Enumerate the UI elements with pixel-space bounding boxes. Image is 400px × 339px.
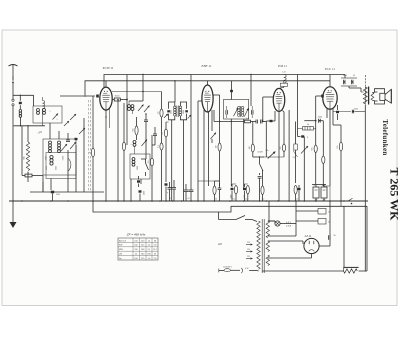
svg-text:EM 11: EM 11 xyxy=(277,64,287,68)
resistor EM4 xyxy=(280,144,286,157)
output transformer secondary xyxy=(371,93,374,101)
wire ECL pins xyxy=(327,109,333,187)
trimmer 2 xyxy=(70,142,76,149)
tuning coil L1 xyxy=(46,141,52,160)
power transformer heater winding 1 xyxy=(266,241,269,252)
resistor af xyxy=(245,118,251,123)
pilot lamp xyxy=(268,221,292,227)
svg-text:1,4: 1,4 xyxy=(148,258,151,260)
resistor grid ECL xyxy=(337,125,343,201)
oscillator coil pair A xyxy=(128,101,134,114)
capacitor T2a xyxy=(226,106,228,118)
svg-text:ECH 11: ECH 11 xyxy=(102,66,114,70)
capacitor blob2 xyxy=(139,190,146,201)
label aW xyxy=(218,242,222,246)
svg-text:Bereich: Bereich xyxy=(119,239,127,242)
wire OT secondary leads xyxy=(372,93,374,101)
resistor k2 xyxy=(148,135,154,201)
IF T2 trimmer arrows xyxy=(234,108,249,117)
trimmer osc B xyxy=(142,140,148,147)
wire xyxy=(345,75,364,93)
loudspeaker frame xyxy=(375,89,385,104)
svg-text:220: 220 xyxy=(247,242,250,244)
wire EBF9 pin1 xyxy=(203,110,205,201)
tuning coil box xyxy=(43,139,76,175)
label ECL 11 xyxy=(324,67,335,71)
trimmer osc A xyxy=(138,105,150,113)
tube EM4 xyxy=(273,88,285,111)
wire xyxy=(263,156,284,158)
volume pot xyxy=(253,152,276,159)
antenna terminals xyxy=(12,99,14,106)
capacitor osc xyxy=(144,113,148,127)
resistor 1M b xyxy=(249,122,255,158)
wire T2 feed xyxy=(230,81,233,100)
wire xyxy=(21,126,23,176)
rectifier AZ1 xyxy=(304,234,319,254)
svg-text:5000: 5000 xyxy=(183,110,185,114)
svg-text:515: 515 xyxy=(141,258,144,260)
svg-text:168: 168 xyxy=(147,254,150,256)
svg-text:150: 150 xyxy=(134,240,137,242)
tuning coil L2 xyxy=(58,141,65,160)
label 0,1 xyxy=(293,157,297,159)
svg-text:1M: 1M xyxy=(249,146,251,149)
svg-text:AZ 11: AZ 11 xyxy=(304,234,312,238)
label EM 11 xyxy=(277,64,287,68)
bottom RC pair 1 xyxy=(198,181,221,201)
svg-text:KW: KW xyxy=(119,245,122,247)
wire B+ down xyxy=(297,75,299,137)
plug arc xyxy=(241,268,257,273)
svg-text:Telefunken: Telefunken xyxy=(381,119,389,155)
svg-text:125: 125 xyxy=(247,256,250,258)
capacitor blob xyxy=(137,176,140,187)
capacitor pair top xyxy=(341,75,357,86)
mains switch xyxy=(219,212,258,222)
tube ECL11 xyxy=(323,75,337,110)
svg-text:2000: 2000 xyxy=(137,166,139,170)
power transformer heater winding 2 xyxy=(266,255,269,266)
wire ECH11 pins xyxy=(105,109,109,202)
capacitor electrolytic 2 xyxy=(172,180,176,201)
resistor h xyxy=(89,148,95,157)
svg-text:EBF 11: EBF 11 xyxy=(200,64,212,68)
resistor 01 xyxy=(158,143,164,201)
field coil xyxy=(344,251,368,273)
capacitor xyxy=(184,184,189,201)
wire xyxy=(129,74,144,101)
wire AZ1 cathode xyxy=(268,254,312,258)
resistor xyxy=(162,122,169,201)
label Netz xyxy=(223,267,232,269)
grid resistor 3000 xyxy=(112,96,127,101)
wire det out xyxy=(214,110,244,122)
wire xyxy=(190,75,192,187)
capacitor coupling xyxy=(298,135,309,201)
antenna coupling coil xyxy=(19,110,22,126)
svg-text:5000: 5000 xyxy=(171,110,173,114)
output transformer core xyxy=(368,87,370,105)
wire plate xyxy=(117,99,119,201)
bottom R single xyxy=(261,170,264,201)
tap arrows xyxy=(246,242,253,259)
choke EM4 xyxy=(280,72,287,89)
bottom pair em xyxy=(294,185,301,201)
label ZF 468 kHz xyxy=(126,233,146,237)
svg-text:4 W: 4 W xyxy=(245,268,249,270)
svg-text:520: 520 xyxy=(141,240,144,242)
svg-text:25: 25 xyxy=(169,198,171,200)
wire taps xyxy=(257,270,259,273)
svg-text:5000: 5000 xyxy=(144,191,146,195)
coil curl xyxy=(43,97,45,126)
wire can caps xyxy=(296,209,330,225)
wire xyxy=(67,150,69,192)
svg-text:1k: 1k xyxy=(27,172,29,174)
svg-text:0000: 0000 xyxy=(56,166,58,170)
pot 50k xyxy=(265,150,275,159)
IF transformer T2 windings xyxy=(238,106,244,117)
svg-text:160: 160 xyxy=(134,258,137,260)
labels bottom xyxy=(169,195,264,201)
wire lamp xyxy=(269,201,296,236)
tube ECH11 xyxy=(96,81,112,110)
chassis rail xyxy=(9,200,368,202)
wire screen xyxy=(126,75,128,146)
bottom RC pair 3 xyxy=(243,184,249,201)
loudspeaker cone xyxy=(385,89,391,103)
trimmer 1 xyxy=(61,144,67,151)
wire diode xyxy=(213,95,220,143)
tube EBF9 xyxy=(202,81,213,112)
switch arrow b xyxy=(79,128,85,134)
wire heater xyxy=(268,235,296,237)
svg-text:1,25: 1,25 xyxy=(282,72,286,74)
svg-text:49: 49 xyxy=(154,254,156,256)
wire right vertical xyxy=(344,206,367,268)
wire EBF9 pin2 xyxy=(208,112,210,186)
labels caps xyxy=(315,200,326,202)
svg-text:4µF: 4µF xyxy=(315,200,318,202)
svg-text:3000: 3000 xyxy=(115,96,121,98)
svg-text:1M: 1M xyxy=(216,145,218,148)
wire into box xyxy=(33,95,35,106)
svg-text:aW: aW xyxy=(218,242,222,246)
resistor 1k xyxy=(22,172,43,192)
wire antenna down xyxy=(12,95,14,201)
wire avc xyxy=(198,101,202,201)
capacitor ant series xyxy=(13,95,34,109)
svg-text:50k: 50k xyxy=(133,128,135,131)
svg-text:ECL 11: ECL 11 xyxy=(324,67,335,71)
IF T1 left trimmer xyxy=(164,102,175,120)
wire xyxy=(312,184,326,186)
output transformer primary xyxy=(363,87,367,105)
switch em xyxy=(293,122,298,184)
rail junction dots xyxy=(12,200,345,202)
svg-text:50: 50 xyxy=(215,199,217,201)
wire AZ1 xyxy=(268,238,330,247)
padder coil stack xyxy=(132,158,139,171)
svg-text:150: 150 xyxy=(247,249,250,251)
wire xyxy=(83,118,85,192)
svg-text:50k: 50k xyxy=(265,150,268,152)
wire bottom row xyxy=(30,182,104,192)
wire EM4 pin4 xyxy=(288,110,290,201)
coil antenna box xyxy=(33,106,62,123)
wire xyxy=(131,179,141,201)
wire OT top lead xyxy=(364,75,366,87)
svg-text:MW: MW xyxy=(119,249,123,251)
IF T1 right trimmer xyxy=(180,102,191,120)
svg-text:50: 50 xyxy=(353,75,355,77)
capacitor osc2 xyxy=(153,127,157,141)
grid cap blob xyxy=(315,95,324,146)
bus wire lower xyxy=(93,201,344,212)
switch arrow c xyxy=(64,121,69,126)
wire grid feed xyxy=(60,95,95,96)
label 300 xyxy=(37,130,43,135)
IF transformer T2 box xyxy=(224,100,249,120)
svg-text:5,8: 5,8 xyxy=(154,245,157,247)
label EBF 11 xyxy=(200,64,212,68)
svg-text:5000: 5000 xyxy=(244,195,246,199)
capacitor 50uF xyxy=(329,201,337,240)
power transformer core xyxy=(262,219,264,273)
capacitor electrolytic xyxy=(167,182,172,201)
svg-text:110/220 V: 110/220 V xyxy=(223,267,232,269)
svg-text:0,5M: 0,5M xyxy=(258,152,263,154)
osc switch xyxy=(146,159,149,176)
svg-text:0,1: 0,1 xyxy=(233,199,236,201)
power transformer HV winding xyxy=(266,221,269,238)
resistor k1 xyxy=(122,103,125,201)
wire xyxy=(333,124,341,126)
svg-text:2000: 2000 xyxy=(46,166,48,170)
svg-text:0,2: 0,2 xyxy=(262,199,265,201)
switch arrow a xyxy=(70,114,76,120)
svg-text:6,1: 6,1 xyxy=(148,249,151,251)
svg-text:0,3 A: 0,3 A xyxy=(286,224,292,227)
resistor det 1M xyxy=(216,143,222,186)
wire EM4 pin3 xyxy=(283,111,285,145)
power transformer primary xyxy=(257,221,260,269)
svg-text:15: 15 xyxy=(148,240,150,242)
wire stub xyxy=(152,141,155,145)
svg-text:0,5: 0,5 xyxy=(187,198,190,200)
svg-text:148: 148 xyxy=(141,249,144,251)
svg-text:5000: 5000 xyxy=(354,109,358,111)
electrolytic can 2 xyxy=(321,184,327,201)
wire xyxy=(75,145,77,192)
svg-text:50k: 50k xyxy=(312,147,314,150)
svg-text:20: 20 xyxy=(135,254,137,256)
capacitor anode xyxy=(333,109,365,114)
switch af xyxy=(259,156,263,175)
wire kath bottom xyxy=(323,186,330,201)
wire T1 left down xyxy=(171,120,173,201)
wire af line xyxy=(304,120,315,122)
title T 265 WK xyxy=(388,168,400,222)
capacitor tone ecl xyxy=(336,105,339,120)
small cap mid xyxy=(66,133,78,142)
svg-text:50: 50 xyxy=(307,124,309,126)
svg-text:5000: 5000 xyxy=(231,195,233,199)
svg-text:160: 160 xyxy=(134,245,137,247)
resistor osc grid xyxy=(133,117,139,140)
svg-text:310: 310 xyxy=(134,249,137,251)
svg-text:h: h xyxy=(89,152,90,154)
svg-text:515: 515 xyxy=(141,245,144,247)
bottom RC pair 2 xyxy=(231,184,238,201)
svg-text:1,4: 1,4 xyxy=(148,245,151,247)
wire xyxy=(50,123,59,139)
wire OT bottom xyxy=(364,105,366,272)
wire xyxy=(141,127,146,159)
svg-text:ZF = 468 kHz: ZF = 468 kHz xyxy=(126,233,146,237)
svg-text:5,8: 5,8 xyxy=(154,258,157,260)
dashed pair xyxy=(89,100,91,192)
wire EM4 grid feed xyxy=(262,97,273,122)
svg-text:LW: LW xyxy=(119,254,122,256)
svg-text:580: 580 xyxy=(141,254,144,256)
capacitor af xyxy=(258,177,262,202)
osc section box xyxy=(130,154,150,179)
wire T1 feed xyxy=(174,80,175,102)
antenna bus wire xyxy=(14,125,45,126)
svg-text:T 265 WK: T 265 WK xyxy=(388,168,400,222)
svg-text:5000: 5000 xyxy=(318,117,322,119)
wire xyxy=(250,74,251,106)
svg-text:0,1: 0,1 xyxy=(296,199,299,201)
wire xyxy=(231,119,243,188)
loudspeaker magnet xyxy=(380,93,385,100)
resistor 50 hatched xyxy=(298,124,316,130)
switch arrow af2 xyxy=(301,146,308,154)
svg-text:58: 58 xyxy=(154,240,156,242)
title Telefunken xyxy=(381,119,389,155)
IF transformer T1 windings xyxy=(171,106,185,118)
resistor kathode xyxy=(322,121,325,186)
wire EM4 pin2 xyxy=(278,111,280,201)
inner band box xyxy=(46,153,76,179)
top bus wire 2 xyxy=(85,81,330,95)
wire T1 right down xyxy=(183,120,185,201)
capacitor xyxy=(189,186,194,201)
label ECH 11 xyxy=(102,66,114,70)
antenna xyxy=(9,65,18,96)
switch on rail xyxy=(341,198,353,206)
svg-text:16,7: 16,7 xyxy=(153,249,157,251)
top bus wire 1 xyxy=(104,75,345,88)
svg-text:4µF: 4µF xyxy=(323,200,326,202)
resistor screen xyxy=(158,92,164,144)
wire screen grid xyxy=(112,91,162,93)
svg-text:5000: 5000 xyxy=(56,194,60,196)
fuse xyxy=(224,269,240,272)
electrolytic can 1 xyxy=(313,184,319,201)
capacitor series xyxy=(251,120,267,124)
ground electrode xyxy=(10,201,17,228)
resistor 50k xyxy=(24,126,30,182)
mains plug lead xyxy=(219,269,224,273)
cathode cap 5000 xyxy=(318,117,323,123)
wire bottom psu xyxy=(262,270,344,272)
capacitor T2b xyxy=(252,106,254,118)
oscillator coil pair B xyxy=(130,141,136,155)
capacitor pad xyxy=(51,179,60,202)
switch arrow avc xyxy=(211,110,217,143)
frequency table xyxy=(118,238,158,260)
wire xyxy=(92,96,94,201)
resistor klang xyxy=(312,145,318,185)
wire EM4 pin1 xyxy=(266,111,275,157)
